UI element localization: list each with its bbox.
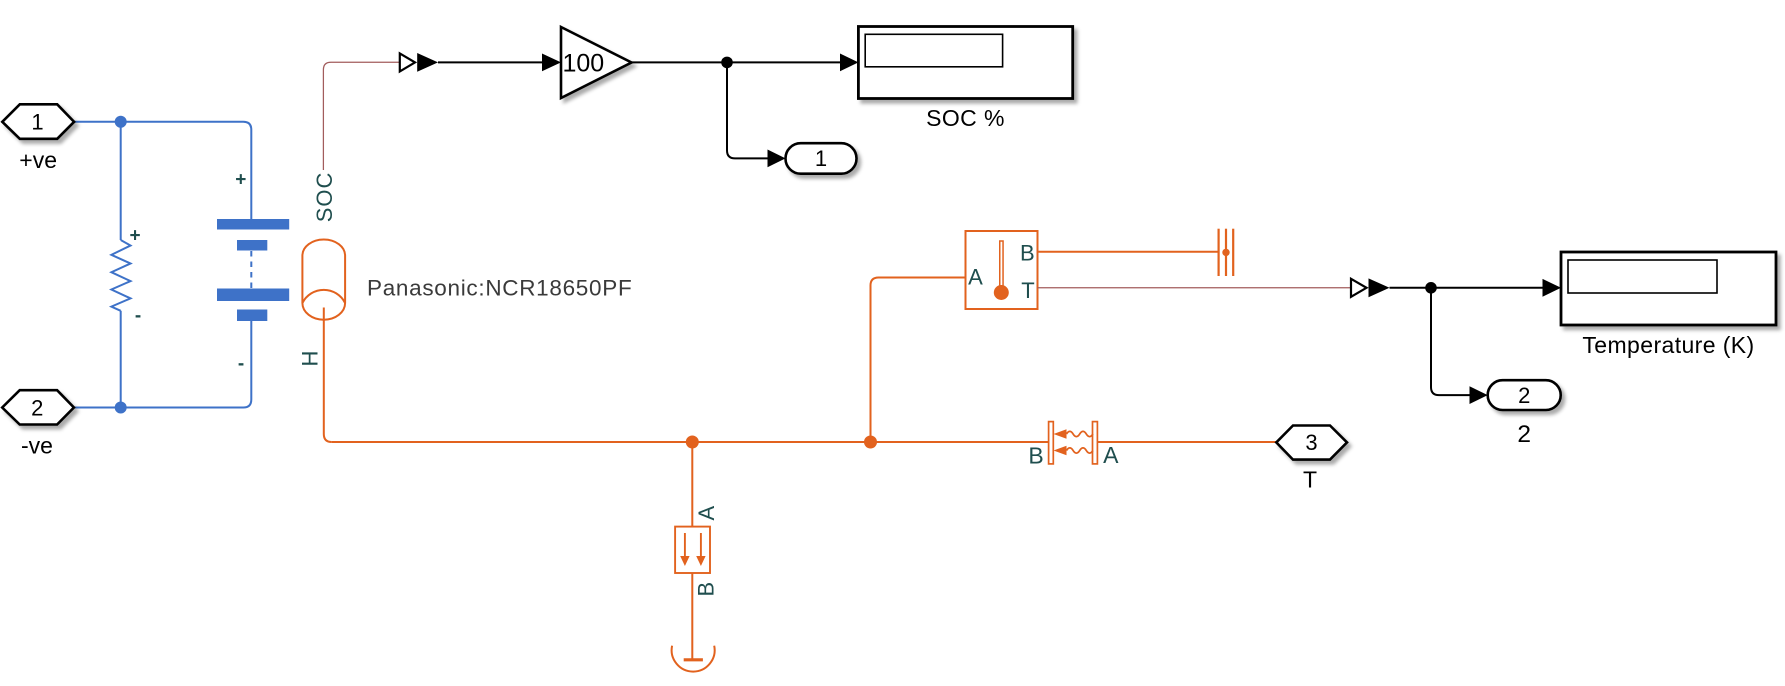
junction dot blue top <box>115 116 127 128</box>
svg-text:3: 3 <box>1305 430 1317 455</box>
outport 1 <box>786 143 857 174</box>
conduction arrowhead bottom <box>1054 446 1067 456</box>
PS-Simulink converter top <box>400 53 415 71</box>
arrowhead into gain <box>542 54 561 72</box>
wire sensor B to reference <box>1038 251 1219 253</box>
svg-text:+: + <box>129 226 140 247</box>
wire heat flow sensor bottom <box>691 573 693 659</box>
BLUE ELECTRICAL SECTION <box>74 122 251 408</box>
display SOC % <box>858 27 1072 99</box>
junction dot black 1 <box>721 57 733 69</box>
temperature sensor block <box>966 231 1038 309</box>
svg-text:2: 2 <box>1518 383 1530 408</box>
svg-text:A: A <box>968 265 983 290</box>
svg-text:Panasonic:NCR18650PF: Panasonic:NCR18650PF <box>367 276 632 301</box>
wire thermal main left <box>332 441 1049 443</box>
arrowhead into outport 2 <box>1470 386 1488 404</box>
teal +/- labels <box>129 170 246 375</box>
svg-text:-: - <box>238 354 244 375</box>
wire H orange <box>324 308 332 443</box>
resistor R <box>111 240 130 311</box>
svg-text:B: B <box>1020 240 1035 265</box>
wire gain to display <box>632 61 841 63</box>
svg-text:A: A <box>694 506 719 521</box>
svg-text:T: T <box>1021 278 1034 303</box>
svg-text:1: 1 <box>815 146 827 171</box>
svg-text:SOC: SOC <box>312 172 337 223</box>
heat flow rate sensor block <box>675 527 710 573</box>
svg-text:2: 2 <box>31 395 43 420</box>
svg-text:+ve: +ve <box>19 147 57 173</box>
thermometer stem <box>1000 241 1003 286</box>
inport 2 hexagon <box>2 390 74 424</box>
wire converter to junction temp <box>1390 287 1544 289</box>
arrowhead into outport 1 <box>768 150 786 168</box>
svg-text:A: A <box>1103 442 1119 468</box>
svg-text:B: B <box>694 582 719 597</box>
battery plate short bottom <box>237 310 267 322</box>
cylinder rim arc <box>302 290 345 303</box>
wire thermal main right <box>1097 441 1276 443</box>
svg-text:+: + <box>235 170 246 191</box>
conduction wavy lines <box>1067 431 1093 453</box>
svg-text:SOC %: SOC % <box>926 105 1005 131</box>
ORANGE THERMAL SECTION <box>302 240 1276 659</box>
wire heat flow sensor top <box>691 442 693 527</box>
wire branch to outport 2 <box>1431 288 1471 395</box>
wire branch to outport 1 <box>727 62 769 158</box>
thermometer bulb <box>994 285 1009 300</box>
svg-text:-: - <box>135 306 141 327</box>
svg-text:Temperature (K): Temperature (K) <box>1582 332 1754 358</box>
gain block 100 <box>561 27 632 98</box>
thermal reference top (three bars) <box>1219 229 1234 276</box>
cylinder bottom dome <box>302 303 345 320</box>
conductive heat transfer block <box>1049 422 1098 464</box>
wire T signal <box>1038 287 1352 289</box>
battery plate long top <box>217 219 289 230</box>
heat flow arrowhead left <box>680 556 689 566</box>
thermal reference bottom bar <box>684 658 703 661</box>
junction dot orange 1 <box>686 436 699 449</box>
heat flow sensor arrows <box>685 533 701 557</box>
svg-text:1: 1 <box>31 110 43 135</box>
display Temperature (K) <box>1561 252 1776 325</box>
wire resistor branch bottom <box>120 311 122 408</box>
inport 1 hexagon <box>2 104 74 139</box>
conduction arrowhead top <box>1054 429 1067 439</box>
battery plate short top <box>237 240 267 251</box>
wire sensor A <box>871 278 966 443</box>
MAROON PS SIGNALS <box>323 62 1351 287</box>
wire converter to gain <box>438 61 543 63</box>
battery dashed line <box>250 251 252 288</box>
svg-text:B: B <box>1028 443 1043 469</box>
thermal reference bottom <box>672 646 715 672</box>
svg-text:T: T <box>1303 467 1317 493</box>
svg-text:2: 2 <box>1517 421 1531 448</box>
wire SOC signal <box>323 62 399 170</box>
battery plate long bottom <box>217 289 289 302</box>
junction dot blue bottom <box>115 402 127 414</box>
junction dot black 2 <box>1425 282 1437 294</box>
battery cylinder icon top arc <box>302 240 345 256</box>
svg-text:-ve: -ve <box>21 433 53 459</box>
thermal reference top node dot <box>1222 249 1229 256</box>
arrowhead into Temperature display <box>1543 279 1562 297</box>
PS-Simulink converter right <box>1351 279 1367 297</box>
outport 3 hexagon <box>1276 426 1347 460</box>
junction dot orange 2 <box>864 436 877 449</box>
outport 2 <box>1488 380 1561 410</box>
BLACK SIGNAL WIRES <box>438 62 1544 395</box>
wire top blue <box>74 122 251 219</box>
wire bottom blue <box>74 321 251 408</box>
cylinder sides <box>302 256 345 304</box>
svg-text:H: H <box>298 351 323 367</box>
svg-text:100: 100 <box>563 50 605 78</box>
arrowhead into SOC display <box>840 54 858 72</box>
wire resistor branch top <box>120 122 122 240</box>
heat flow arrowhead right <box>696 556 705 566</box>
